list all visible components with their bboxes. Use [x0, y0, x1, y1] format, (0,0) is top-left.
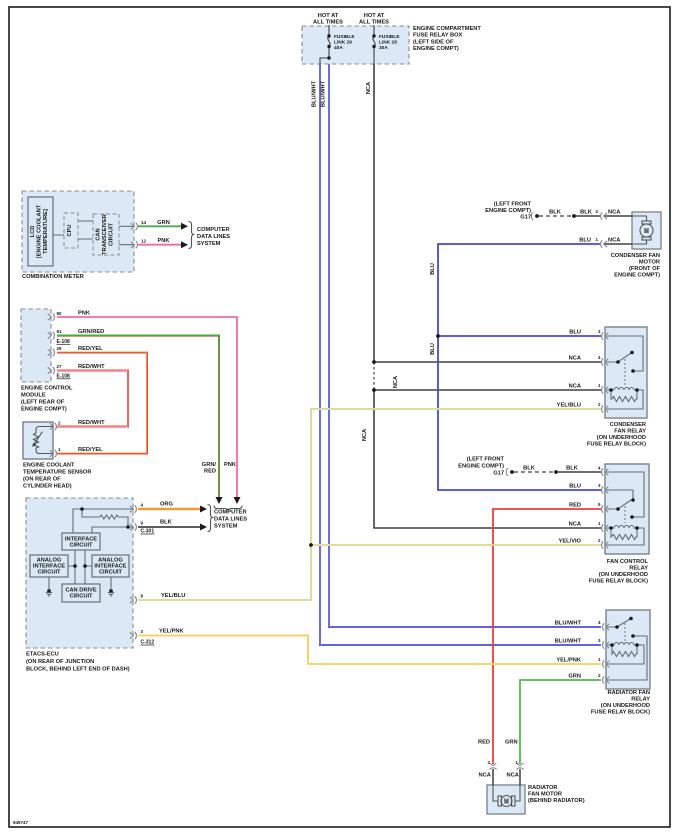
svg-text:CYLINDER HEAD): CYLINDER HEAD) — [23, 484, 72, 490]
svg-text:M: M — [504, 799, 508, 805]
svg-text:RED: RED — [569, 503, 581, 509]
svg-text:M: M — [644, 229, 648, 235]
svg-text:(BEHIND RADIATOR): (BEHIND RADIATOR) — [528, 798, 585, 804]
svg-text:BLU: BLU — [569, 484, 581, 490]
svg-text:RED/YEL: RED/YEL — [78, 447, 103, 453]
svg-text:RED: RED — [478, 740, 490, 746]
svg-text:RED/WHT: RED/WHT — [78, 364, 105, 370]
svg-text:30A: 30A — [379, 45, 388, 51]
svg-text:BLK: BLK — [549, 210, 562, 216]
svg-text:MOTOR: MOTOR — [639, 260, 660, 266]
svg-text:BLU: BLU — [579, 238, 591, 244]
svg-text:YEL/VIO: YEL/VIO — [559, 539, 582, 545]
svg-text:RED/WHT: RED/WHT — [78, 420, 105, 426]
svg-text:NCA: NCA — [569, 522, 581, 528]
svg-text:BLU: BLU — [569, 330, 581, 336]
svg-text:BLK: BLK — [523, 466, 536, 472]
svg-text:ENGINE COMPT): ENGINE COMPT) — [485, 208, 531, 214]
svg-text:RELAY: RELAY — [631, 697, 650, 703]
svg-text:27: 27 — [57, 364, 63, 369]
svg-text:ENGINE CONTROL: ENGINE CONTROL — [21, 386, 73, 392]
svg-text:BLK: BLK — [580, 210, 593, 216]
svg-text:BLK: BLK — [566, 466, 579, 472]
svg-text:RADIATOR FAN: RADIATOR FAN — [608, 690, 650, 696]
svg-text:14: 14 — [141, 220, 147, 225]
svg-text:RED: RED — [204, 469, 216, 475]
svg-text:NCA: NCA — [366, 82, 372, 94]
svg-text:MODULE: MODULE — [21, 393, 46, 399]
svg-text:YEL/PNK: YEL/PNK — [159, 629, 185, 635]
svg-text:ALL TIMES: ALL TIMES — [359, 20, 389, 26]
svg-text:(ON UNDERHOOD: (ON UNDERHOOD — [601, 703, 650, 709]
svg-text:BLU/WHT: BLU/WHT — [321, 80, 327, 107]
svg-text:CIRCUIT: CIRCUIT — [109, 222, 115, 246]
svg-text:PNK: PNK — [157, 238, 170, 244]
svg-text:NCA: NCA — [569, 356, 581, 362]
svg-text:ENGINE COMPT): ENGINE COMPT) — [458, 464, 504, 470]
svg-text:ENGINE COOLANT: ENGINE COOLANT — [23, 463, 75, 469]
svg-text:DATA LINES: DATA LINES — [197, 234, 230, 240]
svg-text:CONDENSER: CONDENSER — [610, 422, 646, 428]
svg-text:CONDENSER FAN: CONDENSER FAN — [611, 253, 660, 259]
svg-text:HOT AT: HOT AT — [318, 13, 339, 19]
svg-text:ETACS-ECU: ETACS-ECU — [26, 652, 59, 658]
svg-text:(LEFT SIDE OF: (LEFT SIDE OF — [413, 39, 454, 45]
svg-text:949747: 949747 — [13, 820, 29, 825]
svg-text:(LEFT FRONT: (LEFT FRONT — [494, 202, 532, 208]
svg-text:(ON REAR OF: (ON REAR OF — [23, 477, 61, 483]
svg-text:CAN: CAN — [96, 228, 102, 240]
svg-text:ENGINE COMPT): ENGINE COMPT) — [21, 407, 67, 413]
svg-text:FUSE RELAY BLOCK): FUSE RELAY BLOCK) — [587, 442, 646, 448]
svg-text:29: 29 — [57, 346, 63, 351]
svg-text:RELAY: RELAY — [629, 566, 648, 572]
svg-text:PNK: PNK — [224, 462, 237, 468]
svg-text:NCA: NCA — [362, 429, 368, 441]
svg-text:G17: G17 — [493, 471, 504, 477]
svg-text:GRN/RED: GRN/RED — [78, 329, 104, 335]
svg-text:YEL/BLU: YEL/BLU — [557, 403, 581, 409]
svg-text:RED/YEL: RED/YEL — [78, 346, 103, 352]
svg-text:TEMPERATURE]: TEMPERATURE] — [43, 209, 49, 254]
svg-text:NCA: NCA — [569, 384, 581, 390]
svg-text:GRN: GRN — [568, 674, 581, 680]
svg-text:(LEFT FRONT: (LEFT FRONT — [467, 457, 505, 463]
svg-text:BLU: BLU — [430, 263, 436, 275]
svg-text:FUSIBLE: FUSIBLE — [379, 34, 400, 40]
svg-text:FUSE RELAY BLOCK): FUSE RELAY BLOCK) — [589, 579, 648, 585]
svg-text:FUSIBLE: FUSIBLE — [334, 34, 355, 40]
svg-text:NCA: NCA — [393, 376, 399, 388]
svg-text:ENGINE COMPT): ENGINE COMPT) — [614, 273, 660, 279]
svg-text:(FRONT OF: (FRONT OF — [629, 266, 660, 272]
svg-text:GRN: GRN — [157, 220, 170, 226]
svg-text:BLU/WHT: BLU/WHT — [311, 80, 317, 107]
svg-text:NCA: NCA — [608, 210, 620, 216]
svg-text:GRN: GRN — [505, 740, 518, 746]
svg-text:ENGINE COMPT): ENGINE COMPT) — [413, 46, 459, 52]
svg-text:FAN RELAY: FAN RELAY — [614, 429, 646, 435]
svg-text:CIRCUIT: CIRCUIT — [69, 543, 93, 549]
svg-text:CPU: CPU — [67, 224, 73, 236]
svg-text:BLK: BLK — [160, 520, 173, 526]
svg-text:NCA: NCA — [608, 238, 620, 244]
svg-text:FUSE RELAY BLOCK): FUSE RELAY BLOCK) — [591, 710, 650, 716]
svg-text:91: 91 — [57, 329, 63, 334]
svg-text:BLOCK, BEHIND LEFT END OF DASH: BLOCK, BEHIND LEFT END OF DASH) — [26, 667, 130, 673]
svg-text:BLU/WHT: BLU/WHT — [555, 639, 582, 645]
svg-text:FUSE RELAY BOX: FUSE RELAY BOX — [413, 33, 463, 39]
svg-text:BLU/WHT: BLU/WHT — [555, 621, 582, 627]
svg-text:(ON UNDERHOOD: (ON UNDERHOOD — [599, 572, 648, 578]
svg-text:90: 90 — [57, 311, 63, 316]
svg-text:TRANSCEIVER: TRANSCEIVER — [102, 214, 108, 255]
svg-text:[ENGINE COOLANT: [ENGINE COOLANT — [37, 204, 43, 258]
svg-text:PNK: PNK — [78, 311, 91, 317]
svg-text:(ON UNDERHOOD: (ON UNDERHOOD — [597, 435, 646, 441]
svg-text:COMPUTER: COMPUTER — [214, 510, 247, 516]
svg-text:NCA: NCA — [479, 773, 491, 779]
svg-text:ORG: ORG — [160, 502, 174, 508]
svg-text:COMBINATION METER: COMBINATION METER — [22, 274, 84, 280]
svg-text:YEL/BLU: YEL/BLU — [161, 593, 185, 599]
svg-text:40A: 40A — [334, 45, 343, 51]
svg-text:12: 12 — [141, 238, 147, 243]
svg-text:G17: G17 — [520, 215, 531, 221]
svg-text:NCA: NCA — [507, 773, 519, 779]
svg-text:LINK 28: LINK 28 — [379, 40, 397, 46]
svg-text:CIRCUIT: CIRCUIT — [69, 594, 93, 600]
svg-text:HOT AT: HOT AT — [364, 13, 385, 19]
svg-text:SYSTEM: SYSTEM — [197, 241, 221, 247]
svg-text:COMPUTER: COMPUTER — [197, 227, 230, 233]
svg-text:YEL/PNK: YEL/PNK — [556, 658, 582, 664]
svg-text:ALL TIMES: ALL TIMES — [313, 20, 343, 26]
svg-text:BLU: BLU — [430, 343, 436, 355]
svg-text:FAN MOTOR: FAN MOTOR — [528, 792, 562, 798]
svg-text:SYSTEM: SYSTEM — [214, 524, 238, 530]
svg-text:CIRCUIT: CIRCUIT — [37, 570, 61, 576]
svg-text:(ON REAR OF JUNCTION: (ON REAR OF JUNCTION — [26, 659, 94, 665]
svg-text:TEMPERATURE SENSOR: TEMPERATURE SENSOR — [23, 470, 91, 476]
svg-text:GRN/: GRN/ — [202, 462, 217, 468]
svg-text:LINK 29: LINK 29 — [334, 40, 352, 46]
svg-text:LCD: LCD — [30, 226, 36, 238]
svg-text:ENGINE COMPARTMENT: ENGINE COMPARTMENT — [413, 26, 481, 32]
svg-text:CIRCUIT: CIRCUIT — [99, 570, 123, 576]
svg-text:RADIATOR: RADIATOR — [528, 785, 558, 791]
svg-text:FAN CONTROL: FAN CONTROL — [607, 559, 649, 565]
svg-text:DATA LINES: DATA LINES — [214, 517, 247, 523]
svg-text:(LEFT REAR OF: (LEFT REAR OF — [21, 400, 65, 406]
